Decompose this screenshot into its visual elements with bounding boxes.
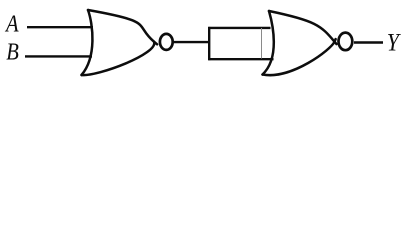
box top edge — [208, 27, 270, 29]
box right edge (faint) — [261, 28, 263, 59]
box left edge — [208, 27, 210, 60]
box bottom edge — [208, 58, 273, 60]
nor-gate U2 bubble — [339, 33, 353, 51]
nor-gate U2 back edge — [263, 11, 274, 75]
nor-gate U1 bubble — [160, 34, 173, 50]
svg-text:B: B — [6, 39, 19, 66]
nor-gate U2 top edge — [269, 11, 337, 44]
svg-text:Y: Y — [387, 28, 402, 57]
svg-text:A: A — [4, 11, 19, 38]
wire bubble2 to Y — [354, 41, 383, 43]
wire bubble1 to box — [174, 41, 210, 43]
nor-gate U1 bottom edge — [82, 42, 155, 75]
nor-gate U1 back edge — [82, 10, 93, 75]
wire input B — [25, 55, 92, 57]
wire input A — [27, 26, 93, 28]
nor-gate U1 top edge — [88, 10, 157, 44]
nor-gate U2 bottom edge — [263, 39, 336, 75]
